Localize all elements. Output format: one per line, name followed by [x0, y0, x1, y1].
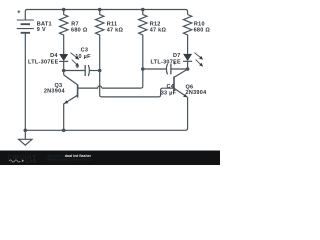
- node bottom rail Q3 emitter junction: [62, 129, 66, 133]
- svg-text:LTL-307EE: LTL-307EE: [150, 60, 181, 66]
- svg-text:680 Ω: 680 Ω: [71, 27, 88, 33]
- svg-text:C4: C4: [167, 84, 175, 90]
- svg-text:2N3904: 2N3904: [44, 89, 66, 95]
- svg-text:47 kΩ: 47 kΩ: [107, 28, 124, 34]
- node top rail junction R12: [141, 8, 145, 12]
- svg-text:D7: D7: [173, 53, 181, 59]
- wire bottom rail ground net: [25, 97, 187, 130]
- svg-text:http://circuitlab.com/c#7lv22: http://circuitlab.com/c#7lv22: [47, 158, 91, 162]
- node R12 / C4 junction: [141, 67, 145, 71]
- svg-text:LAB: LAB: [26, 159, 36, 164]
- LED D4: [59, 53, 79, 75]
- svg-text:10 µF: 10 µF: [75, 54, 91, 60]
- svg-text:2N3904: 2N3904: [186, 90, 208, 96]
- node top rail junction R11: [98, 8, 102, 12]
- svg-text:C3: C3: [81, 48, 89, 54]
- node C3 / R11 junction: [98, 69, 102, 73]
- resistor R11: [96, 10, 175, 97]
- banner bottom bar: [0, 151, 220, 166]
- transistor Q6: [174, 69, 188, 97]
- capacitor C3: [64, 65, 100, 76]
- svg-text:33 µF: 33 µF: [161, 90, 177, 96]
- resistor R12: [102, 10, 147, 89]
- node D4 cathode / C3 junction: [62, 69, 66, 73]
- transistor Q3: [64, 75, 78, 130]
- logo CIRCUIT LAB: [8, 155, 37, 164]
- svg-text:9 V: 9 V: [37, 27, 46, 33]
- capacitor C4: [143, 62, 188, 75]
- node bottom rail battery junction: [24, 129, 28, 133]
- LED D7: [183, 53, 203, 70]
- ground: [19, 130, 32, 145]
- wire Q3 base with hop over R11: [78, 86, 102, 88]
- battery BAT1: [17, 10, 34, 130]
- svg-text:LTL-307EE: LTL-307EE: [28, 60, 59, 66]
- svg-text:47 kΩ: 47 kΩ: [150, 28, 167, 34]
- node top rail junction R7: [62, 8, 66, 12]
- resistor R7: [60, 10, 68, 55]
- node C4 / D7 cathode junction: [186, 67, 190, 71]
- svg-text:D4: D4: [50, 53, 58, 59]
- svg-text:680 Ω: 680 Ω: [194, 27, 211, 33]
- wire top rail V+: [25, 10, 187, 21]
- resistor R10: [183, 15, 191, 54]
